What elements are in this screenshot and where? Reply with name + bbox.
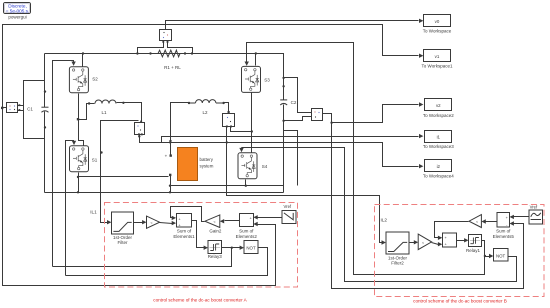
svg-text:i2: i2: [437, 164, 441, 169]
svg-text:IL1: IL1: [90, 210, 97, 215]
svg-text:Vref: Vref: [284, 204, 292, 209]
svg-text:IL2: IL2: [381, 218, 388, 223]
svg-text:S4: S4: [262, 164, 268, 169]
svg-text:To Workspace4: To Workspace4: [423, 173, 454, 178]
svg-text:To Workspace1: To Workspace1: [422, 64, 453, 69]
svg-text:<: <: [213, 220, 215, 224]
svg-text:v2: v2: [436, 103, 441, 108]
svg-text:+: +: [165, 154, 168, 159]
svg-text:S2: S2: [92, 77, 98, 82]
svg-text:To Workspace3: To Workspace3: [423, 144, 454, 149]
svg-text:Filter2: Filter2: [391, 261, 404, 266]
svg-text:v1: v1: [435, 54, 440, 59]
svg-text:control scheme of the dc-ac bo: control scheme of the dc-ac boost conver…: [413, 299, 507, 304]
svg-text:i1: i1: [437, 135, 441, 140]
svg-text:<: <: [476, 220, 478, 224]
svg-text:R1 + RL: R1 + RL: [164, 65, 181, 70]
svg-text:S3: S3: [264, 78, 270, 83]
svg-text:battery: battery: [200, 157, 214, 162]
svg-text:<: <: [150, 221, 152, 225]
svg-text:L1: L1: [101, 110, 107, 115]
svg-text:Gain2: Gain2: [209, 229, 222, 234]
svg-text:Elements5: Elements5: [493, 234, 515, 239]
svg-text:S1: S1: [92, 158, 98, 163]
svg-text:powergui: powergui: [8, 15, 26, 20]
svg-text:control scheme of the dc-ac bo: control scheme of the dc-ac boost conver…: [153, 298, 247, 303]
svg-text:Filter: Filter: [118, 240, 129, 245]
svg-text:NOT: NOT: [246, 245, 256, 250]
svg-text:C1: C1: [27, 106, 33, 111]
svg-text:Relay1: Relay1: [466, 248, 481, 253]
svg-text:Elements2: Elements2: [236, 234, 258, 239]
svg-text:system: system: [200, 164, 214, 169]
svg-text:= 5e-005 s.: = 5e-005 s.: [6, 9, 30, 14]
svg-text:C2: C2: [291, 100, 297, 105]
svg-text:NOT: NOT: [496, 253, 506, 258]
svg-text:v0: v0: [435, 19, 440, 24]
svg-text:To Workspace: To Workspace: [423, 29, 452, 34]
svg-text:Vref: Vref: [530, 204, 538, 209]
svg-text:Relay3: Relay3: [208, 254, 223, 259]
svg-text:L2: L2: [202, 110, 208, 115]
svg-text:-: -: [165, 174, 167, 180]
svg-text:<: <: [422, 241, 424, 245]
svg-text:To Workspace2: To Workspace2: [423, 113, 454, 118]
svg-text:Elements1: Elements1: [173, 234, 195, 239]
